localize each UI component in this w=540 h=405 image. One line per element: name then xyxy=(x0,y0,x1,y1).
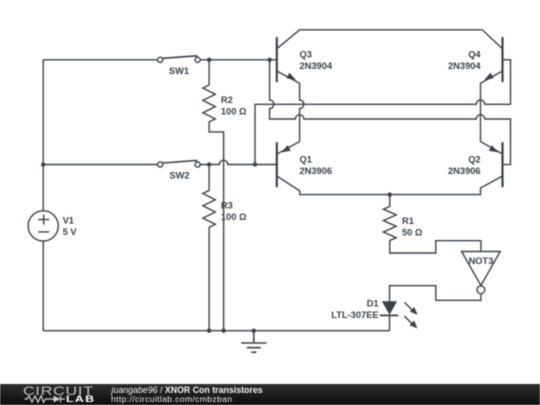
svg-text:5 V: 5 V xyxy=(63,227,78,237)
svg-text:2N3906: 2N3906 xyxy=(448,166,481,176)
svg-text:NOT3: NOT3 xyxy=(469,256,494,266)
svg-text:100 Ω: 100 Ω xyxy=(221,212,247,222)
svg-text:Q4: Q4 xyxy=(468,49,481,59)
svg-text:2N3906: 2N3906 xyxy=(300,166,333,176)
svg-text:SW1: SW1 xyxy=(169,66,189,76)
svg-text:2N3904: 2N3904 xyxy=(448,61,481,71)
svg-text:R3: R3 xyxy=(221,200,233,210)
svg-text:50 Ω: 50 Ω xyxy=(402,227,423,237)
svg-text:R1: R1 xyxy=(402,216,414,226)
svg-text:Q1: Q1 xyxy=(300,155,312,165)
svg-text:LTL-307EE: LTL-307EE xyxy=(331,310,378,320)
svg-text:SW2: SW2 xyxy=(169,171,189,181)
svg-text:Q3: Q3 xyxy=(300,49,312,59)
svg-text:100 Ω: 100 Ω xyxy=(221,107,247,117)
svg-text:V1: V1 xyxy=(63,216,74,226)
svg-text:2N3904: 2N3904 xyxy=(300,61,333,71)
svg-text:Q2: Q2 xyxy=(468,155,480,165)
svg-text:R2: R2 xyxy=(221,95,233,105)
svg-text:D1: D1 xyxy=(367,298,379,308)
